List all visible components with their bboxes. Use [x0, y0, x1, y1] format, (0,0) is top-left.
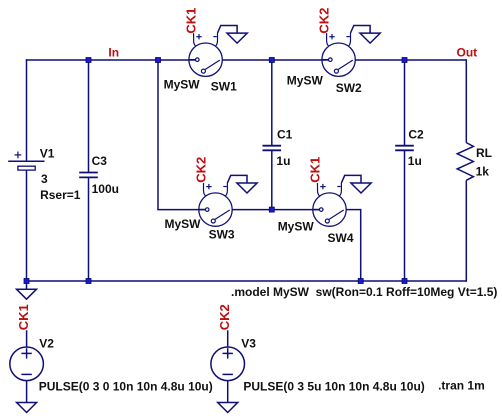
junction C1 bottom / mid rail — [269, 207, 274, 212]
svg-text:.model MySW sw(Ron=0.1 Roff=1: .model MySW sw(Ron=0.1 Roff=10Meg Vt=1.5… — [231, 285, 497, 299]
capacitor C3 — [79, 173, 98, 178]
wire top rail left segment — [26, 59, 196, 61]
ground G2 (below V2) — [17, 403, 37, 413]
svg-text:.tran 1m: .tran 1m — [438, 379, 485, 393]
wire SW4 output horizontal — [346, 209, 361, 211]
svg-text:1u: 1u — [276, 154, 290, 168]
svg-text:RL: RL — [476, 146, 492, 160]
svg-text:MySW: MySW — [165, 217, 202, 231]
wire V3 top stub — [227, 330, 229, 347]
wire mid rail SW3 to SW4 — [232, 209, 319, 211]
svg-text:V2: V2 — [39, 336, 54, 350]
wire V2 bottom stub — [26, 380, 28, 402]
switch SW1 — [189, 26, 247, 77]
svg-text:MySW: MySW — [278, 220, 315, 234]
capacitor C1 — [263, 146, 282, 151]
wire left vertical lower (V1 bottom) — [26, 170, 28, 281]
wire left vertical upper (V1 top) — [26, 59, 28, 161]
junction C3 bottom — [86, 279, 91, 284]
wire right vertical upper (RL top) — [465, 59, 467, 142]
wire C2 branch lower — [404, 150, 406, 281]
junction C2 bottom — [402, 279, 407, 284]
svg-text:V3: V3 — [241, 336, 256, 350]
svg-text:Out: Out — [457, 46, 478, 60]
ground G1 (bottom rail left) — [17, 289, 37, 299]
wire C1 branch lower — [271, 150, 273, 209]
wire right vertical lower (RL bottom) — [465, 180, 467, 281]
svg-text:PULSE(0 3 5u 10n 10n 4.8u 10u): PULSE(0 3 5u 10n 10n 4.8u 10u) — [243, 380, 424, 394]
wire top rail middle segment — [222, 59, 328, 61]
svg-text:V1: V1 — [40, 146, 55, 160]
svg-text:In: In — [108, 46, 119, 60]
junction bottom rail left — [24, 279, 29, 284]
junction C1 top — [269, 58, 274, 63]
wire SW3 feed horizontal — [157, 209, 205, 211]
svg-text:CK1: CK1 — [184, 8, 199, 34]
svg-text:CK1: CK1 — [16, 304, 31, 330]
wire SW3 feed vertical — [157, 60, 159, 210]
wire top rail right segment — [355, 59, 467, 61]
svg-text:C2: C2 — [408, 128, 424, 142]
junction SW4 bottom — [358, 279, 363, 284]
svg-text:CK2: CK2 — [217, 304, 232, 330]
ground G3 (below V3) — [218, 403, 238, 413]
svg-text:SW1: SW1 — [211, 79, 237, 93]
switch SW3 — [199, 175, 257, 226]
voltage source V2 — [10, 347, 44, 381]
wire C1 branch upper — [271, 60, 273, 146]
wire C3 branch lower — [88, 177, 90, 281]
switch SW2 — [322, 26, 380, 77]
svg-text:C3: C3 — [92, 154, 108, 168]
svg-text:SW3: SW3 — [209, 228, 235, 242]
svg-text:SW2: SW2 — [336, 81, 362, 95]
resistor RL — [457, 143, 473, 181]
wire V2 top stub — [26, 330, 28, 347]
wire V3 bottom stub — [227, 380, 229, 402]
svg-text:1k: 1k — [476, 165, 490, 179]
switch SW4 — [313, 175, 371, 226]
svg-text:C1: C1 — [277, 128, 293, 142]
svg-text:MySW: MySW — [164, 77, 201, 91]
svg-text:CK2: CK2 — [317, 8, 332, 34]
wire bottom rail — [26, 280, 467, 282]
junction In/C3 top — [86, 58, 91, 63]
capacitor C2 — [395, 146, 414, 151]
svg-text:PULSE(0 3 0 10n 10n 4.8u 10u): PULSE(0 3 0 10n 10n 4.8u 10u) — [39, 380, 213, 394]
svg-text:100u: 100u — [92, 182, 119, 196]
svg-text:CK1: CK1 — [308, 157, 323, 183]
voltage source V3 — [211, 347, 245, 381]
svg-text:MySW: MySW — [287, 74, 324, 88]
battery V1 — [8, 152, 44, 171]
svg-text:CK2: CK2 — [194, 157, 209, 183]
wire C2 branch upper — [404, 60, 406, 146]
wire SW4 output vertical — [360, 209, 362, 281]
junction SW3 feed top — [156, 58, 161, 63]
svg-text:3: 3 — [41, 172, 48, 186]
wire C3 branch upper — [88, 60, 90, 173]
wire ground stem left — [26, 281, 28, 289]
svg-text:Rser=1: Rser=1 — [40, 188, 81, 202]
svg-text:1u: 1u — [408, 154, 422, 168]
junction C2 top — [402, 58, 407, 63]
svg-text:SW4: SW4 — [328, 231, 354, 245]
